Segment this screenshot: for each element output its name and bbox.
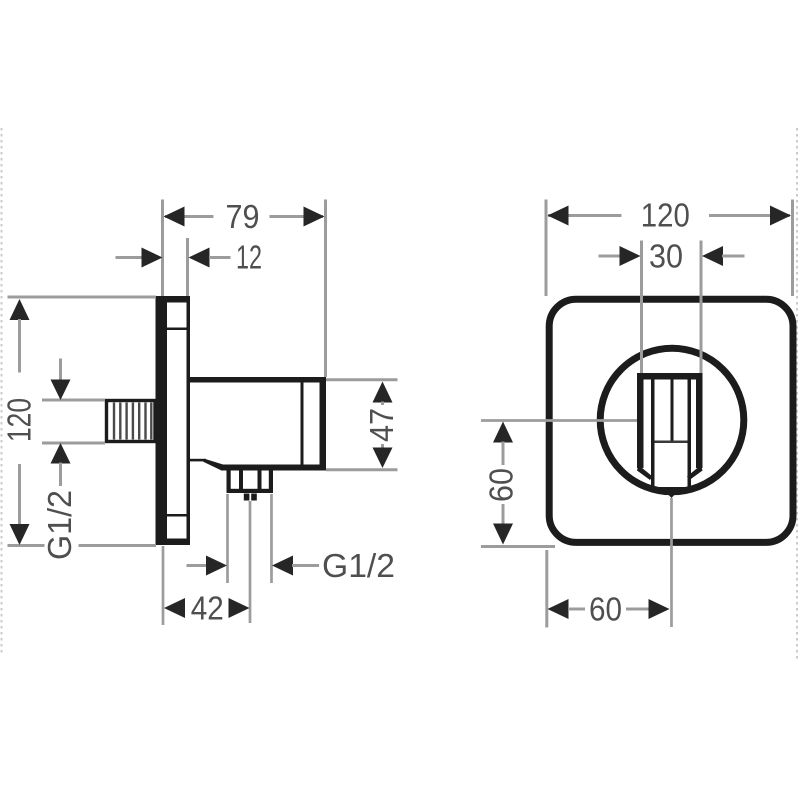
svg-text:G1/2: G1/2 — [322, 547, 395, 584]
svg-text:79: 79 — [226, 198, 260, 235]
svg-text:60: 60 — [483, 468, 520, 502]
wall plate (side profile) — [156, 296, 191, 545]
dimension 60 (bottom, horizontal) — [547, 550, 670, 628]
hose nipple tip — [244, 494, 257, 501]
dimension G1/2 (outlet thread, bottom) — [187, 547, 396, 584]
dimension 47 (body height) — [326, 380, 400, 470]
svg-text:12: 12 — [236, 239, 262, 276]
svg-text:60: 60 — [589, 591, 622, 628]
holder / outlet nipple (front) — [637, 373, 703, 491]
extension line plate face — [162, 546, 165, 625]
dimension 30 (holder width) — [599, 238, 745, 374]
front plate (rounded square) — [549, 299, 793, 542]
escutcheon circle — [600, 348, 744, 492]
vertical centerline (front) — [670, 498, 673, 627]
dimension 60 (left, vertical) — [481, 422, 555, 547]
dimension 42 (bottom) — [164, 590, 250, 627]
pipe G1/2 wall connection (hatched) — [107, 401, 156, 442]
extension line nut left — [226, 494, 229, 583]
frame right dashed — [796, 128, 798, 660]
hex nut connector (side) — [227, 471, 274, 494]
extension line nut right — [270, 494, 273, 583]
centerline of outlet — [249, 501, 252, 623]
dimension 12 — [116, 238, 263, 296]
holder tip pointer — [665, 491, 679, 499]
svg-text:120: 120 — [1, 398, 38, 442]
dimension 120 (front width) — [546, 197, 793, 297]
svg-text:120: 120 — [641, 197, 690, 234]
dimension pipe diameter with G1/2 label (left) — [41, 359, 105, 561]
outlet body (side) — [190, 377, 326, 471]
dimension 120 (side view height) — [1, 297, 157, 546]
svg-text:42: 42 — [191, 590, 224, 627]
horizontal centerline (front) — [481, 419, 637, 422]
dimension 79 — [163, 198, 326, 377]
svg-text:G1/2: G1/2 — [41, 490, 78, 560]
svg-text:30: 30 — [649, 238, 683, 275]
frame left dashed — [1, 128, 3, 655]
svg-text:47: 47 — [363, 408, 400, 442]
